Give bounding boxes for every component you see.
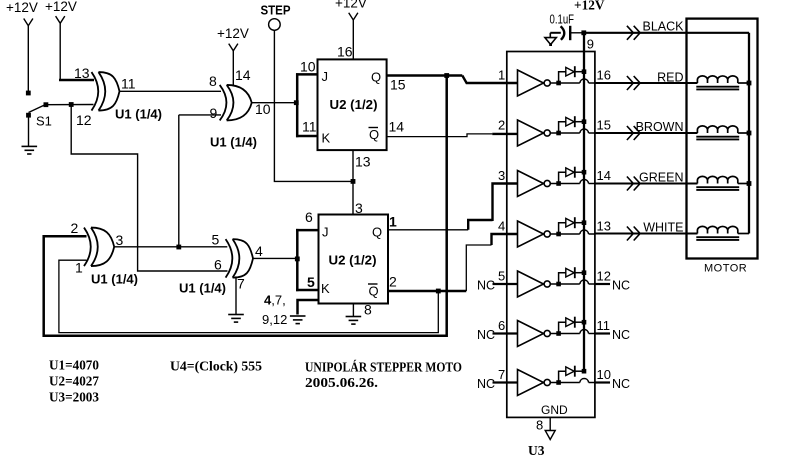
svg-text:2005.06.26.: 2005.06.26.: [305, 375, 378, 390]
svg-text:GREEN: GREEN: [639, 171, 683, 185]
svg-text:Q: Q: [369, 127, 379, 142]
svg-text:U4=(Clock) 555: U4=(Clock) 555: [170, 359, 262, 374]
svg-text:NC: NC: [477, 278, 495, 292]
svg-text:13: 13: [355, 154, 371, 170]
svg-text:5: 5: [212, 232, 220, 248]
svg-text:8: 8: [364, 302, 372, 318]
svg-text:2: 2: [71, 220, 79, 236]
svg-text:7: 7: [498, 367, 505, 382]
svg-text:U1=4070: U1=4070: [49, 358, 99, 373]
svg-text:NC: NC: [477, 328, 495, 342]
svg-text:1: 1: [389, 214, 397, 230]
svg-text:+12V: +12V: [45, 0, 77, 14]
svg-text:U3=2003: U3=2003: [49, 390, 99, 405]
svg-text:16: 16: [597, 68, 611, 83]
svg-text:13: 13: [597, 219, 611, 234]
svg-text:7: 7: [237, 276, 245, 292]
svg-text:4,7,: 4,7,: [264, 293, 286, 308]
svg-text:NC: NC: [477, 377, 495, 391]
svg-text:12: 12: [597, 269, 611, 284]
svg-text:11: 11: [121, 76, 136, 92]
svg-text:9,12: 9,12: [262, 312, 287, 327]
svg-text:U2 (1/2): U2 (1/2): [329, 254, 377, 268]
svg-text:10: 10: [255, 101, 271, 117]
svg-text:10: 10: [300, 59, 316, 75]
svg-text:3: 3: [116, 232, 124, 248]
svg-text:GND: GND: [541, 403, 568, 417]
svg-text:J: J: [322, 69, 329, 84]
svg-text:U1 (1/4): U1 (1/4): [91, 273, 138, 287]
svg-text:U3: U3: [528, 443, 545, 458]
svg-text:8: 8: [209, 73, 217, 89]
svg-text:4: 4: [255, 243, 263, 259]
svg-text:Q: Q: [371, 70, 381, 85]
svg-text:U1 (1/4): U1 (1/4): [115, 108, 162, 122]
svg-text:9: 9: [587, 37, 594, 52]
svg-text:J: J: [322, 225, 329, 240]
svg-text:2: 2: [498, 118, 505, 133]
svg-text:10: 10: [597, 367, 611, 382]
svg-text:1: 1: [498, 68, 505, 83]
svg-text:U1 (1/4): U1 (1/4): [179, 282, 226, 296]
svg-text:STEP: STEP: [261, 3, 291, 18]
svg-text:3: 3: [498, 168, 505, 183]
svg-text:11: 11: [597, 318, 611, 333]
svg-text:+12V: +12V: [6, 0, 38, 15]
svg-text:9: 9: [210, 105, 218, 121]
svg-text:0.1uF: 0.1uF: [550, 13, 575, 27]
svg-text:14: 14: [389, 119, 405, 135]
svg-text:NC: NC: [612, 328, 630, 342]
svg-text:16: 16: [337, 44, 353, 60]
svg-text:Q: Q: [369, 284, 379, 299]
svg-text:13: 13: [74, 65, 90, 81]
svg-text:K: K: [322, 131, 331, 146]
svg-text:6: 6: [498, 318, 505, 333]
svg-text:+12V: +12V: [217, 26, 249, 41]
svg-text:5: 5: [307, 274, 315, 290]
svg-text:WHITE: WHITE: [643, 221, 683, 235]
svg-text:S1: S1: [36, 114, 52, 129]
svg-text:15: 15: [597, 118, 611, 133]
svg-text:K: K: [321, 281, 330, 296]
svg-text:BROWN: BROWN: [636, 120, 684, 134]
svg-text:6: 6: [305, 209, 313, 225]
svg-text:MOTOR: MOTOR: [704, 263, 747, 275]
svg-text:2: 2: [389, 274, 397, 290]
svg-text:6: 6: [214, 257, 222, 273]
svg-text:14: 14: [235, 67, 251, 83]
svg-text:U2 (1/2): U2 (1/2): [330, 98, 378, 112]
svg-text:+12V: +12V: [335, 0, 367, 11]
svg-text:U1 (1/4): U1 (1/4): [210, 136, 257, 150]
svg-text:4: 4: [498, 219, 505, 234]
svg-text:3: 3: [355, 200, 363, 216]
svg-text:14: 14: [597, 168, 611, 183]
svg-text:11: 11: [302, 119, 317, 135]
svg-text:UNIPOLÁR STEPPER MOTO: UNIPOLÁR STEPPER MOTO: [305, 360, 462, 375]
svg-text:NC: NC: [612, 377, 630, 391]
svg-text:Q: Q: [372, 225, 382, 240]
svg-text:1: 1: [75, 260, 83, 276]
svg-text:8: 8: [536, 418, 543, 433]
svg-text:+12V: +12V: [574, 0, 605, 14]
svg-text:15: 15: [390, 77, 406, 93]
svg-text:5: 5: [498, 269, 505, 284]
svg-text:BLACK: BLACK: [643, 20, 685, 34]
svg-text:12: 12: [76, 112, 92, 128]
svg-text:RED: RED: [657, 71, 683, 85]
svg-text:U2=4027: U2=4027: [49, 374, 99, 389]
svg-text:NC: NC: [612, 278, 630, 292]
